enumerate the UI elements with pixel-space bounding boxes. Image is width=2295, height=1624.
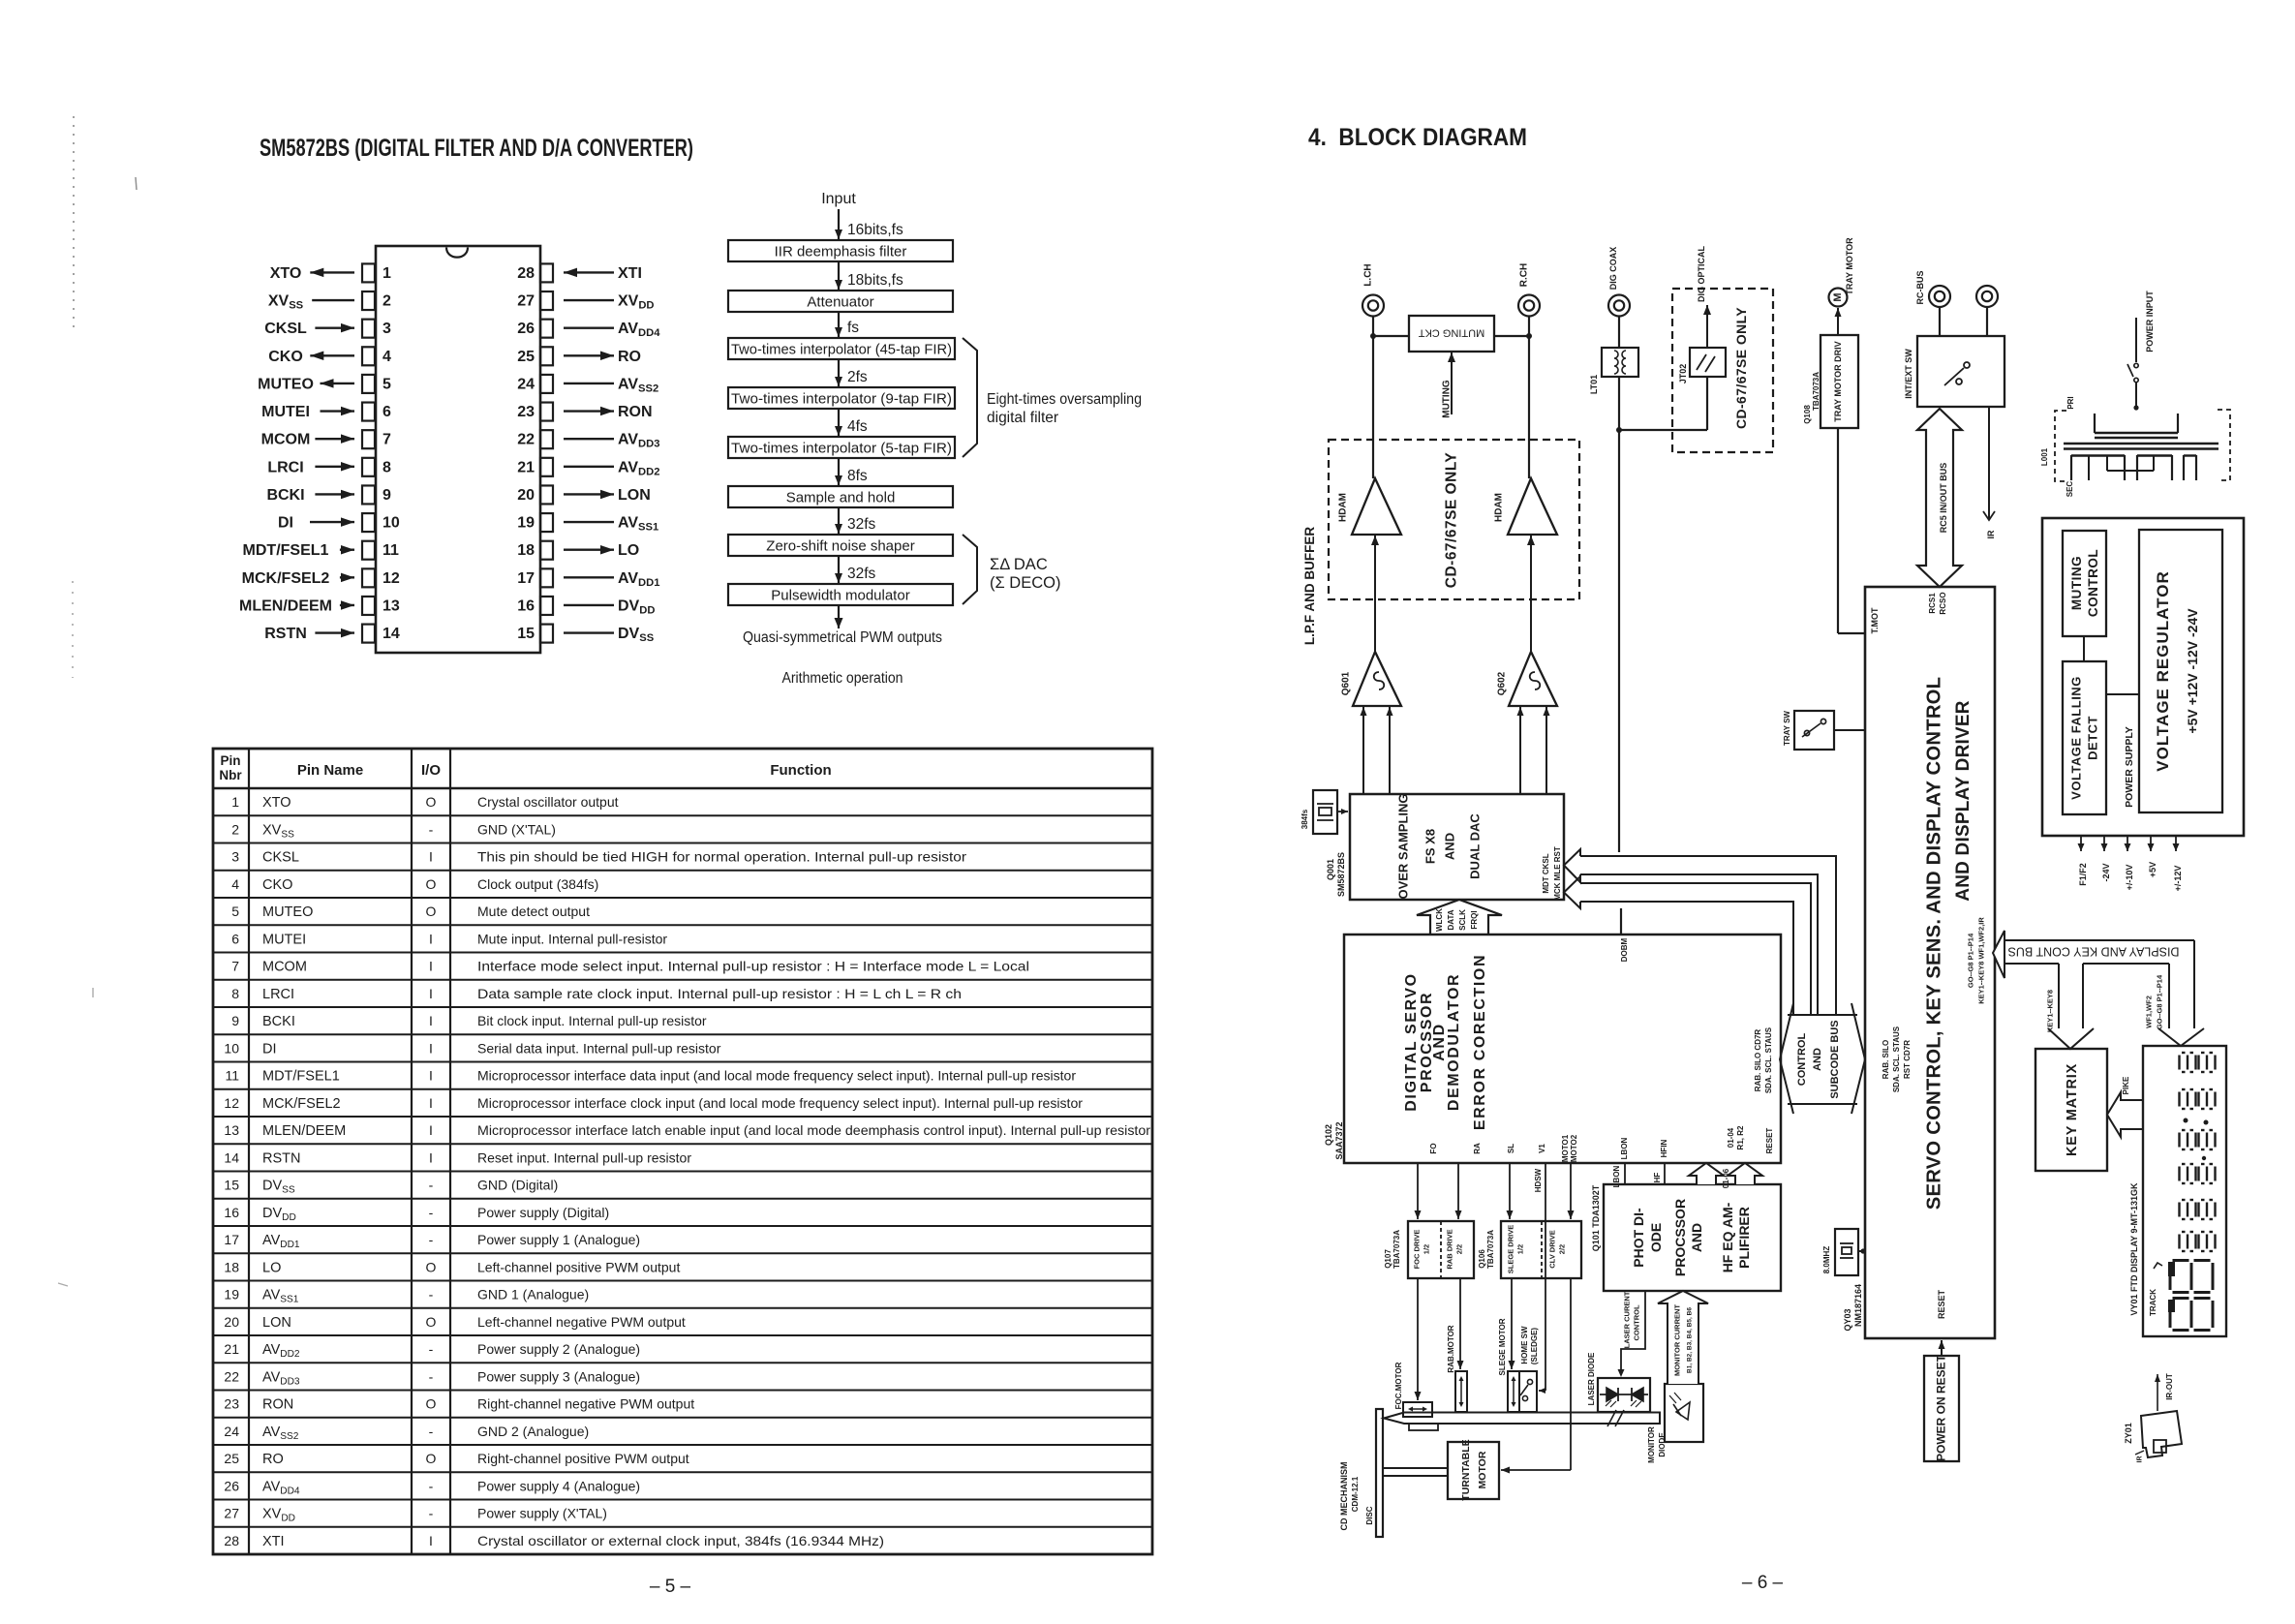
svg-text:RESET: RESET bbox=[1765, 1128, 1774, 1154]
connector R.CH bbox=[1518, 295, 1540, 317]
pickup arm bbox=[1384, 1413, 1660, 1425]
svg-text:TBA7073A: TBA7073A bbox=[1392, 1230, 1401, 1269]
svg-text:Power supply (Digital): Power supply (Digital) bbox=[477, 1205, 609, 1220]
wire muting left bbox=[1373, 335, 1409, 337]
svg-text:CKSL: CKSL bbox=[262, 850, 299, 866]
svg-text:MONITOR: MONITOR bbox=[1647, 1426, 1656, 1463]
svg-text:Data sample rate clock input.: Data sample rate clock input. Internal p… bbox=[477, 986, 962, 1001]
svg-text:-: - bbox=[429, 1478, 434, 1493]
svg-text:AND: AND bbox=[1689, 1223, 1704, 1252]
svg-text:2/2: 2/2 bbox=[1558, 1244, 1567, 1254]
svg-text:MUTEO: MUTEO bbox=[258, 376, 314, 392]
svg-text:19: 19 bbox=[224, 1287, 239, 1302]
brace sigma-delta DAC bbox=[963, 535, 977, 604]
svg-text:DISC: DISC bbox=[1365, 1506, 1374, 1524]
svg-text:1: 1 bbox=[231, 794, 239, 810]
svg-text:XTI: XTI bbox=[618, 265, 642, 282]
svg-text:LRCI: LRCI bbox=[262, 987, 294, 1002]
svg-text:XTO: XTO bbox=[270, 265, 302, 282]
svg-text:LON: LON bbox=[262, 1315, 291, 1331]
svg-text:RON: RON bbox=[262, 1397, 293, 1413]
svg-text:HFIN: HFIN bbox=[1660, 1139, 1668, 1157]
svg-text:OVER SAMPLING: OVER SAMPLING bbox=[1396, 793, 1411, 899]
tray switch bbox=[1794, 711, 1834, 750]
svg-text:KEY1--KEY8: KEY1--KEY8 bbox=[2046, 990, 2055, 1032]
svg-text:CONTROL: CONTROL bbox=[1633, 1304, 1641, 1340]
rab motor bbox=[1455, 1371, 1467, 1412]
svg-text:RA: RA bbox=[1473, 1143, 1482, 1154]
svg-text:23: 23 bbox=[517, 404, 535, 420]
svg-text:Microprocessor interface data: Microprocessor interface data input (and… bbox=[477, 1068, 1076, 1084]
svg-text:IR: IR bbox=[1986, 530, 1996, 539]
wires Q001 to Q601 bbox=[1362, 707, 1364, 794]
focus motor bbox=[1403, 1402, 1432, 1417]
svg-text:RAB. SILO: RAB. SILO bbox=[1882, 1040, 1890, 1079]
pin 10 DI bbox=[362, 513, 375, 532]
branch to key matrix bbox=[2058, 964, 2060, 1028]
svg-text:GND (Digital): GND (Digital) bbox=[477, 1178, 558, 1193]
svg-text:Q001: Q001 bbox=[1326, 859, 1335, 880]
svg-text:Input: Input bbox=[821, 191, 856, 207]
svg-text:MUTEI: MUTEI bbox=[261, 404, 310, 420]
flowchart arrow 18bits,fs bbox=[838, 261, 840, 290]
svg-text:This pin should be tied HIGH f: This pin should be tied HIGH for normal … bbox=[477, 849, 966, 865]
svg-text:DATA: DATA bbox=[1447, 909, 1455, 930]
svg-text:L001: L001 bbox=[2040, 447, 2049, 466]
svg-text:MCK MLE RST: MCK MLE RST bbox=[1553, 846, 1562, 901]
svg-text:I: I bbox=[429, 1013, 433, 1028]
svg-text:Attenuator: Attenuator bbox=[807, 294, 873, 311]
svg-text:SDA. SCL. STAUS: SDA. SCL. STAUS bbox=[1892, 1026, 1901, 1092]
optical connector JT02 bbox=[1690, 348, 1726, 377]
svg-text:19: 19 bbox=[517, 515, 535, 532]
svg-text:O: O bbox=[426, 794, 437, 810]
svg-text:QY03: QY03 bbox=[1843, 1308, 1852, 1331]
svg-text:8: 8 bbox=[382, 459, 391, 475]
wire digital signal to DSP DOBM bbox=[1618, 430, 1620, 852]
table row pin 17 AVDD1 bbox=[213, 1225, 1152, 1227]
svg-text:VOLTAGE REGULATOR: VOLTAGE REGULATOR bbox=[2154, 570, 2172, 771]
svg-text:CKO: CKO bbox=[262, 877, 292, 893]
svg-text:Q101 TDA1302T: Q101 TDA1302T bbox=[1591, 1184, 1601, 1251]
int/ext switch box bbox=[1917, 336, 2004, 407]
svg-text:Q106: Q106 bbox=[1478, 1249, 1486, 1269]
wires drivers to motors bbox=[1417, 1278, 1419, 1400]
svg-text:20: 20 bbox=[517, 487, 535, 504]
svg-text:8: 8 bbox=[231, 986, 239, 1001]
svg-text:MCK/FSEL2: MCK/FSEL2 bbox=[262, 1096, 341, 1112]
svg-text:Power supply 2 (Analogue): Power supply 2 (Analogue) bbox=[477, 1341, 640, 1357]
svg-text:01-06: 01-06 bbox=[1722, 1168, 1730, 1188]
wire detect to regulator bbox=[2106, 693, 2139, 695]
svg-text:I: I bbox=[429, 1149, 433, 1165]
svg-text:MOTO1: MOTO1 bbox=[1561, 1134, 1570, 1162]
svg-text:Q602: Q602 bbox=[1497, 671, 1508, 695]
svg-text:16: 16 bbox=[224, 1205, 239, 1220]
svg-text:I: I bbox=[429, 986, 433, 1001]
flowchart arrow 32fs bbox=[838, 507, 840, 534]
wire crystal to Q001 bbox=[1337, 811, 1348, 812]
svg-text:MONITOR CURRENT: MONITOR CURRENT bbox=[1673, 1304, 1682, 1376]
svg-text:MUTEI: MUTEI bbox=[262, 933, 306, 948]
branch to display bbox=[2193, 940, 2195, 1028]
svg-text:XTI: XTI bbox=[262, 1534, 285, 1549]
wire T.MOT bbox=[1837, 428, 1839, 633]
svg-text:CONTROL: CONTROL bbox=[1796, 1033, 1808, 1087]
svg-text:1: 1 bbox=[382, 265, 391, 282]
svg-text:21: 21 bbox=[224, 1341, 239, 1357]
table row pin 25 RO bbox=[213, 1444, 1152, 1446]
svg-text:5: 5 bbox=[231, 904, 239, 919]
svg-text:Power supply (X'TAL): Power supply (X'TAL) bbox=[477, 1506, 607, 1521]
svg-text:RO: RO bbox=[618, 349, 641, 365]
wire into HDAM right bbox=[1530, 536, 1532, 652]
svg-text:6: 6 bbox=[231, 932, 239, 947]
svg-text:10: 10 bbox=[224, 1041, 239, 1057]
svg-text:DIODE: DIODE bbox=[1658, 1432, 1667, 1457]
wire LBON bbox=[1624, 1163, 1626, 1184]
pin 12 MCK/FSEL2 bbox=[362, 568, 375, 587]
svg-text:LRCI: LRCI bbox=[267, 459, 303, 475]
IC Q101 TDA1302T bbox=[1604, 1184, 1781, 1291]
RCS in/out bus arrow bbox=[1917, 409, 1962, 587]
laser current control wire bbox=[1621, 1291, 1645, 1372]
svg-text:MOTOR: MOTOR bbox=[1477, 1451, 1488, 1488]
svg-text:27: 27 bbox=[224, 1506, 239, 1521]
svg-text:RC5 IN/OUT BUS: RC5 IN/OUT BUS bbox=[1939, 463, 1948, 534]
svg-text:SEC: SEC bbox=[2065, 481, 2074, 498]
svg-text:DEMODULATOR: DEMODULATOR bbox=[1446, 973, 1462, 1111]
svg-text:I: I bbox=[429, 1095, 433, 1111]
svg-text:Crystal oscillator output: Crystal oscillator output bbox=[477, 794, 619, 810]
svg-text:VY01 FTD DISPLAY 9-MT-131GK: VY01 FTD DISPLAY 9-MT-131GK bbox=[2129, 1182, 2139, 1316]
svg-text:CKSL: CKSL bbox=[264, 321, 307, 337]
key matrix box bbox=[2035, 1049, 2107, 1171]
svg-text:DI: DI bbox=[262, 1042, 277, 1057]
svg-text:20: 20 bbox=[224, 1314, 239, 1330]
svg-text:11: 11 bbox=[382, 542, 399, 559]
svg-text:8fs: 8fs bbox=[847, 468, 868, 484]
svg-text:-: - bbox=[429, 1232, 434, 1247]
svg-text:13: 13 bbox=[224, 1122, 239, 1138]
pin 18 LO bbox=[540, 541, 553, 560]
svg-text:6: 6 bbox=[382, 404, 391, 420]
svg-text:Nbr: Nbr bbox=[219, 768, 242, 782]
svg-text:XTO: XTO bbox=[262, 795, 291, 811]
table row pin 4 CKO bbox=[213, 870, 1152, 872]
svg-text:RSTN: RSTN bbox=[264, 626, 307, 642]
svg-text:RESET: RESET bbox=[1937, 1289, 1946, 1319]
monitor diode box bbox=[1665, 1384, 1703, 1442]
svg-text:MLEN/DEEM: MLEN/DEEM bbox=[239, 598, 332, 614]
svg-text:PLIFIRER: PLIFIRER bbox=[1736, 1207, 1752, 1269]
svg-text:PRI: PRI bbox=[2066, 396, 2075, 409]
svg-text:L.CH: L.CH bbox=[1363, 263, 1374, 286]
pin 24 AVSS2 bbox=[540, 375, 553, 393]
svg-text:15: 15 bbox=[517, 626, 535, 642]
svg-text:+/-10V: +/-10V bbox=[2125, 865, 2134, 891]
bus arrows Q101 to DSP bbox=[1689, 1163, 1724, 1184]
svg-text:Q107: Q107 bbox=[1384, 1249, 1392, 1269]
svg-text:RAB.MOTOR: RAB.MOTOR bbox=[1447, 1325, 1455, 1372]
svg-text:SM5872BS: SM5872BS bbox=[1336, 852, 1346, 897]
svg-text:Crystal oscillator or external: Crystal oscillator or external clock inp… bbox=[477, 1533, 884, 1548]
svg-text:LASER DIODE: LASER DIODE bbox=[1587, 1352, 1596, 1405]
svg-text:HDAM: HDAM bbox=[1494, 493, 1505, 522]
svg-text:14: 14 bbox=[382, 626, 400, 642]
svg-text:RCSO: RCSO bbox=[1939, 592, 1947, 614]
svg-text:KEY1--KEY8 WF1,WF2,IR: KEY1--KEY8 WF1,WF2,IR bbox=[1977, 917, 1986, 1004]
svg-text:9: 9 bbox=[231, 1013, 239, 1028]
wire into HDAM left bbox=[1374, 536, 1376, 652]
flowchart arrow 4fs bbox=[838, 409, 840, 436]
svg-text:SDA. SCL. STAUS: SDA. SCL. STAUS bbox=[1764, 1026, 1773, 1093]
pin 1 XTO bbox=[362, 263, 375, 282]
svg-text:SCLK: SCLK bbox=[1458, 909, 1467, 931]
svg-text:Left-channel positive PWM outp: Left-channel positive PWM output bbox=[477, 1259, 680, 1274]
bus arrow to Q001 upper bbox=[1580, 856, 1836, 1015]
svg-text:Serial data input. Internal pu: Serial data input. Internal pull-up resi… bbox=[477, 1040, 721, 1056]
pin 11 MDT/FSEL1 bbox=[362, 541, 375, 560]
svg-text:RAB DRIVE: RAB DRIVE bbox=[1446, 1229, 1454, 1269]
table row pin 3 CKSL bbox=[213, 843, 1152, 844]
svg-text:28: 28 bbox=[517, 265, 535, 282]
svg-text:BCKI: BCKI bbox=[262, 1014, 295, 1029]
IC Q001 SM5872BS bbox=[1350, 794, 1564, 900]
svg-text:BCKI: BCKI bbox=[266, 487, 304, 504]
home switch bbox=[1519, 1371, 1537, 1412]
svg-text:12: 12 bbox=[224, 1095, 239, 1111]
svg-text:KEY MATRIX: KEY MATRIX bbox=[2065, 1063, 2080, 1156]
table row pin 16 DVDD bbox=[213, 1198, 1152, 1200]
svg-text:FS X8: FS X8 bbox=[1423, 829, 1438, 864]
svg-text:Power supply 4 (Analogue): Power supply 4 (Analogue) bbox=[477, 1478, 640, 1493]
wires disc to turntable bbox=[1383, 1467, 1448, 1469]
power input switch bbox=[2135, 318, 2137, 362]
svg-text:I: I bbox=[429, 959, 433, 974]
svg-text:VOLTAGE FALLING: VOLTAGE FALLING bbox=[2069, 676, 2084, 800]
wire HDSW bbox=[1545, 1163, 1546, 1391]
pin 26 AVDD4 bbox=[540, 320, 553, 338]
svg-text:-: - bbox=[429, 1205, 434, 1220]
flowchart arrow 16bits,fs bbox=[838, 209, 840, 239]
svg-text:SERVO CONTROL, KEY SENS. AND D: SERVO CONTROL, KEY SENS. AND DISPLAY CON… bbox=[1923, 677, 1944, 1210]
pin 25 RO bbox=[540, 347, 553, 365]
pin 3 CKSL bbox=[362, 320, 375, 338]
svg-text:RON: RON bbox=[618, 404, 653, 420]
bus arrow to Q001 lower bbox=[1580, 883, 1811, 1015]
driver Q107 TBA7073A bbox=[1408, 1221, 1474, 1278]
pin 13 MLEN/DEEM bbox=[362, 597, 375, 615]
svg-text:M: M bbox=[1832, 292, 1844, 301]
flowchart box Attenuator bbox=[728, 291, 953, 312]
svg-text:01-04: 01-04 bbox=[1727, 1127, 1735, 1148]
table row pin 9 BCKI bbox=[213, 1006, 1152, 1008]
wires RC-BUS to switch bbox=[1939, 307, 1941, 336]
svg-text:TRAY SW: TRAY SW bbox=[1783, 711, 1791, 746]
svg-text:TRACK: TRACK bbox=[2149, 1289, 2157, 1316]
svg-text:DISPLAY AND KEY CONT BUS: DISPLAY AND KEY CONT BUS bbox=[2008, 944, 2180, 958]
flowchart arrow 32fs bbox=[838, 556, 840, 583]
wire junction to JT02 bbox=[1619, 429, 1707, 431]
svg-text:384fs: 384fs bbox=[1300, 809, 1309, 829]
svg-text:Pin: Pin bbox=[220, 753, 240, 768]
dashed box CD-67/67SE ONLY (digital) bbox=[1672, 289, 1773, 452]
pin 15 DVSS bbox=[540, 625, 553, 643]
svg-text:18: 18 bbox=[224, 1260, 239, 1275]
svg-text:Right-channel positive PWM out: Right-channel positive PWM output bbox=[477, 1451, 689, 1466]
svg-text:24: 24 bbox=[517, 376, 535, 392]
svg-text:22: 22 bbox=[224, 1369, 239, 1385]
amp Q602 bbox=[1509, 652, 1557, 706]
svg-text:IIR deemphasis filter: IIR deemphasis filter bbox=[775, 244, 907, 260]
svg-text:MCK/FSEL2: MCK/FSEL2 bbox=[242, 570, 330, 587]
svg-text:R1, R2: R1, R2 bbox=[1736, 1125, 1745, 1149]
svg-text:15: 15 bbox=[224, 1178, 239, 1193]
svg-text:26: 26 bbox=[224, 1479, 239, 1494]
svg-text:-: - bbox=[429, 1368, 434, 1384]
pin 23 RON bbox=[540, 403, 553, 421]
svg-text:CKO: CKO bbox=[268, 349, 303, 365]
table header row bbox=[213, 787, 1152, 789]
svg-text:TURNTABLE: TURNTABLE bbox=[1460, 1439, 1472, 1500]
wire DIG COAX down bbox=[1618, 317, 1620, 349]
control and subcode bus bbox=[1788, 1014, 1857, 1016]
svg-text:FOC.MOTOR: FOC.MOTOR bbox=[1394, 1362, 1403, 1409]
crystal 384fs bbox=[1313, 790, 1337, 834]
table row pin 10 DI bbox=[213, 1033, 1152, 1035]
svg-text:3: 3 bbox=[382, 321, 391, 337]
svg-text:V1: V1 bbox=[1538, 1144, 1546, 1153]
svg-text:POWER SUPPLY: POWER SUPPLY bbox=[2124, 726, 2135, 808]
table row pin 28 XTI bbox=[213, 1526, 1152, 1528]
svg-text:7: 7 bbox=[231, 959, 239, 974]
svg-text:FRQI: FRQI bbox=[1470, 910, 1479, 929]
svg-text:CONTROL: CONTROL bbox=[2086, 549, 2100, 617]
svg-text:Function: Function bbox=[770, 762, 831, 779]
svg-text:O: O bbox=[426, 1314, 437, 1330]
svg-text:RC-BUS: RC-BUS bbox=[1915, 271, 1925, 305]
wire R.CH down bbox=[1528, 317, 1530, 479]
svg-text:2fs: 2fs bbox=[847, 369, 868, 385]
svg-text:LT01: LT01 bbox=[1589, 375, 1599, 394]
svg-text:RAB. SILO CD7R: RAB. SILO CD7R bbox=[1754, 1029, 1762, 1092]
table column lines bbox=[248, 749, 250, 1554]
svg-text:2/2: 2/2 bbox=[1455, 1244, 1464, 1254]
flowchart box Pulsewidth modulator bbox=[728, 584, 953, 605]
sledge motor bbox=[1508, 1371, 1519, 1412]
table row pin 7 MCOM bbox=[213, 952, 1152, 954]
pin 6 MUTEI bbox=[362, 403, 375, 421]
svg-text:ΣΔ DAC: ΣΔ DAC bbox=[990, 556, 1048, 573]
svg-text:SL: SL bbox=[1507, 1144, 1515, 1153]
svg-text:digital filter: digital filter bbox=[987, 410, 1058, 426]
svg-text:17: 17 bbox=[224, 1232, 239, 1247]
svg-text:IR: IR bbox=[2137, 1456, 2144, 1463]
amp Q601 bbox=[1353, 652, 1401, 706]
driver Q106 TBA7073A bbox=[1501, 1221, 1581, 1278]
svg-text:– 6 –: – 6 – bbox=[1742, 1573, 1784, 1593]
svg-text:Two-times interpolator (45-tap: Two-times interpolator (45-tap FIR) bbox=[731, 342, 952, 358]
svg-text:7: 7 bbox=[382, 432, 391, 448]
muting ckt box bbox=[1409, 316, 1494, 352]
svg-text:13: 13 bbox=[382, 598, 400, 614]
svg-text:-: - bbox=[429, 1506, 434, 1521]
svg-text:22: 22 bbox=[517, 432, 535, 448]
svg-text:-: - bbox=[429, 1178, 434, 1193]
svg-text:TRAY MOTOR: TRAY MOTOR bbox=[1845, 237, 1854, 295]
svg-text:MUTING: MUTING bbox=[2069, 556, 2084, 610]
flowchart output arrow bbox=[838, 605, 840, 628]
svg-text:5: 5 bbox=[382, 376, 391, 392]
svg-text:I/O: I/O bbox=[421, 762, 441, 779]
svg-text:HOME SW: HOME SW bbox=[1520, 1326, 1529, 1364]
svg-text:Right-channel negative PWM out: Right-channel negative PWM output bbox=[477, 1396, 694, 1412]
table row pin 24 AVSS2 bbox=[213, 1417, 1152, 1419]
svg-text:-24V: -24V bbox=[2101, 863, 2111, 881]
muting control arrow bbox=[1451, 352, 1453, 414]
svg-text:4fs: 4fs bbox=[847, 418, 868, 435]
svg-text:PHOT DI-: PHOT DI- bbox=[1631, 1208, 1646, 1268]
svg-text:SLEGE DRIVE: SLEGE DRIVE bbox=[1507, 1225, 1515, 1273]
svg-text:Pin Name: Pin Name bbox=[297, 762, 363, 779]
svg-text:Clock output (384fs): Clock output (384fs) bbox=[477, 876, 598, 892]
svg-text:MOTO2: MOTO2 bbox=[1570, 1134, 1578, 1162]
svg-text:14: 14 bbox=[224, 1150, 239, 1166]
svg-text:11: 11 bbox=[225, 1068, 239, 1084]
svg-text:PIKE: PIKE bbox=[2122, 1076, 2130, 1094]
wire LT01 to junction bbox=[1618, 377, 1620, 430]
IC Q102 SAA7372 digital servo bbox=[1344, 935, 1781, 1163]
svg-text:Left-channel negative PWM outp: Left-channel negative PWM output bbox=[477, 1314, 686, 1330]
table row pin 8 LRCI bbox=[213, 979, 1152, 981]
svg-text:GND 1 (Analogue): GND 1 (Analogue) bbox=[477, 1287, 589, 1302]
svg-text:F1/F2: F1/F2 bbox=[2078, 863, 2088, 886]
wires Q001 to Q602 bbox=[1519, 707, 1521, 794]
muting control box bbox=[2063, 531, 2106, 636]
svg-text:12: 12 bbox=[382, 570, 400, 587]
table row pin 19 AVSS1 bbox=[213, 1280, 1152, 1282]
svg-text:WF1,WF2: WF1,WF2 bbox=[2145, 996, 2154, 1028]
pin 22 AVDD3 bbox=[540, 430, 553, 448]
bus WLCK DATA SCLK FRQI bbox=[1417, 900, 1502, 935]
svg-text:Quasi-symmetrical PWM outputs: Quasi-symmetrical PWM outputs bbox=[743, 629, 942, 646]
svg-text:MCOM: MCOM bbox=[262, 960, 307, 975]
svg-text:CD MECHANISM: CD MECHANISM bbox=[1339, 1462, 1349, 1531]
svg-text:GND (X'TAL): GND (X'TAL) bbox=[477, 821, 556, 837]
svg-text:PROCSSOR: PROCSSOR bbox=[1672, 1199, 1688, 1276]
svg-text:+5V +12V -12V -24V: +5V +12V -12V -24V bbox=[2185, 608, 2200, 734]
svg-text:26: 26 bbox=[517, 321, 535, 337]
svg-text:T.MOT: T.MOT bbox=[1870, 607, 1880, 633]
table row pin 5 MUTEO bbox=[213, 897, 1152, 899]
pin 7 MCOM bbox=[362, 430, 375, 448]
svg-text:Two-times interpolator (9-tap: Two-times interpolator (9-tap FIR) bbox=[731, 391, 952, 408]
FTD display box bbox=[2143, 1046, 2226, 1336]
svg-text:MUTING CKT: MUTING CKT bbox=[1419, 327, 1485, 339]
servo control box bbox=[1865, 587, 1995, 1338]
svg-text:Power supply 3 (Analogue): Power supply 3 (Analogue) bbox=[477, 1368, 640, 1384]
svg-text:LON: LON bbox=[618, 487, 651, 504]
transformer core bbox=[2064, 443, 2218, 445]
svg-text:21: 21 bbox=[517, 459, 535, 475]
flowchart box Sample and hold bbox=[728, 486, 953, 507]
svg-text:R.CH: R.CH bbox=[1519, 263, 1530, 287]
svg-text:HF EQ AM-: HF EQ AM- bbox=[1720, 1202, 1735, 1272]
svg-text:16: 16 bbox=[517, 598, 535, 614]
svg-text:Q108: Q108 bbox=[1803, 405, 1812, 424]
wire muting right bbox=[1494, 335, 1529, 337]
